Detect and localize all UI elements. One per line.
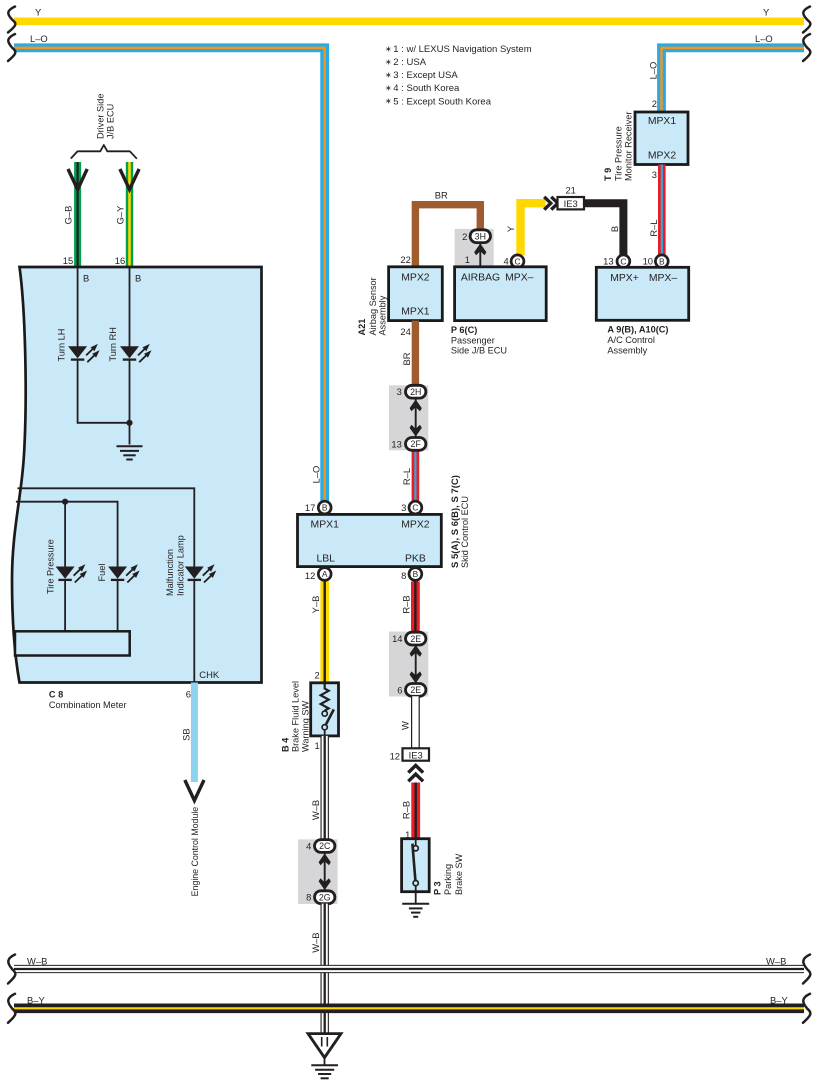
svg-text:24: 24 [400, 326, 410, 337]
svg-text:Y: Y [505, 225, 516, 232]
wire G-Y from Driver Side J/B ECU to meter pin 16 [126, 162, 133, 267]
airbag sensor assembly A21 box [389, 267, 443, 321]
note legend asterisk list [385, 44, 532, 107]
parking brake SW P3 box [402, 839, 430, 892]
LED Fuel [108, 564, 140, 582]
connector 2E-2E junction block [389, 632, 428, 697]
svg-text:B: B [609, 226, 620, 232]
svg-text:12: 12 [305, 570, 315, 581]
ground symbol P3 [402, 904, 429, 917]
svg-text:LBL: LBL [316, 554, 335, 565]
wire MIL LED to CHK pin 6 [193, 581, 195, 683]
ground symbol inside meter [117, 446, 143, 459]
svg-text:A/C Control: A/C Control [607, 335, 655, 345]
svg-text:W–B: W–B [310, 800, 321, 820]
Skid Control ECU box S5 S6 S7 [298, 514, 442, 566]
svg-text:R–L: R–L [401, 468, 412, 485]
ground symbol bottom [311, 1065, 338, 1078]
arrow into wire G-Y [120, 169, 139, 190]
wire meter bus to Malfunction Indicator Lamp [18, 488, 195, 567]
arrow to Engine Control Module [185, 780, 204, 801]
label A21 Airbag Sensor Assembly [357, 277, 387, 335]
LED Turn LH [68, 344, 100, 362]
chevron connector to IE3 [544, 197, 558, 210]
svg-text:∗: ∗ [385, 84, 392, 93]
resistor block inside meter [15, 631, 130, 655]
break symbol top-left L-O [8, 34, 15, 61]
svg-text:Warning SW: Warning SW [300, 700, 310, 752]
svg-text:14: 14 [392, 633, 402, 644]
connector 3H junction block [455, 229, 494, 267]
svg-text:IE3: IE3 [564, 198, 578, 209]
svg-text:MPX+: MPX+ [610, 273, 639, 284]
break symbol top-right Y [803, 7, 810, 33]
wire G-B from Driver Side J/B ECU to meter pin 15 [74, 162, 81, 267]
connector 2C-2G junction block [298, 839, 337, 904]
svg-text:6: 6 [397, 684, 402, 695]
svg-text:3H: 3H [475, 231, 486, 241]
bus B-Y bottom [14, 1003, 804, 1013]
svg-text:BR: BR [435, 189, 448, 200]
svg-text:Airbag Sensor: Airbag Sensor [368, 277, 378, 335]
svg-text:W: W [400, 721, 411, 730]
svg-text:Passenger: Passenger [451, 335, 495, 345]
svg-text:2G: 2G [319, 892, 331, 902]
junction node turn lamps [126, 420, 132, 426]
wire meter bus to Tire Pressure and Fuel LEDs [16, 502, 118, 567]
wire Y from IE3 to P6 pin 4 [521, 203, 546, 255]
svg-text:R–B: R–B [400, 801, 411, 819]
LED Malfunction Indicator Lamp [185, 564, 217, 582]
svg-text:Tire Pressure: Tire Pressure [46, 539, 56, 594]
svg-text:A: A [322, 569, 328, 579]
wire Turn LH LED to junction [78, 360, 130, 423]
svg-text:Assembly: Assembly [607, 345, 647, 355]
switch inside B4 [322, 709, 334, 736]
body ground II triangle [308, 1034, 341, 1058]
wire R-L T9 pin3 to A/C pin 10 [658, 165, 666, 256]
svg-text:Driver Side: Driver Side [95, 94, 105, 139]
svg-text:1 : w/ LEXUS Navigation System: 1 : w/ LEXUS Navigation System [393, 44, 531, 55]
wire junction to Tire Pressure LED [64, 502, 66, 567]
svg-text:Skid Control ECU: Skid Control ECU [460, 496, 470, 568]
connector oval 2F pin 13 [406, 438, 426, 451]
wire meter pin15 to Turn LH LED [77, 267, 79, 347]
label P6 Passenger Side J/B ECU [451, 325, 507, 356]
svg-text:16: 16 [115, 255, 125, 266]
svg-text:Assembly: Assembly [378, 295, 388, 335]
chevron connector from IE3 up [408, 765, 423, 781]
wire SB from CHK to Engine Control Module [191, 683, 198, 783]
svg-text:L–O: L–O [755, 33, 773, 44]
connector oval 2E pin 6 [406, 684, 426, 697]
break symbol top-right L-O [803, 34, 810, 61]
svg-text:Tire Pressure: Tire Pressure [613, 126, 623, 181]
svg-text:5 : Except South Korea: 5 : Except South Korea [393, 96, 491, 107]
pin 3 C skid ECU [409, 501, 422, 514]
svg-text:J/B ECU: J/B ECU [106, 104, 116, 139]
wire BR A21 pin24 to connector 2H [412, 321, 419, 386]
svg-text:SB: SB [181, 728, 192, 741]
svg-text:Brake SW: Brake SW [454, 853, 464, 895]
svg-text:4: 4 [503, 255, 508, 266]
wire Y-B Skid ECU pin12 to B4 pin2 [320, 582, 329, 684]
svg-text:8: 8 [306, 892, 311, 903]
tire pressure monitor receiver T9 box [635, 112, 688, 165]
svg-text:PKB: PKB [405, 554, 426, 565]
svg-text:10: 10 [643, 255, 653, 266]
label Driver Side J/B ECU [95, 94, 115, 139]
wire B IE3 to A/C pin 13 [584, 203, 623, 255]
pin 8 B skid ECU [409, 568, 422, 581]
A/C control assembly box [596, 267, 688, 320]
svg-text:B: B [135, 273, 141, 284]
svg-text:MPX1: MPX1 [311, 519, 340, 530]
svg-text:Fuel: Fuel [97, 564, 107, 582]
connector oval 3H pin 2 [470, 230, 490, 243]
svg-text:R–B: R–B [401, 595, 412, 613]
svg-text:P 3: P 3 [432, 881, 442, 895]
connector oval 2H pin 3 [406, 385, 426, 398]
break symbol bottom-left W-B [8, 955, 15, 984]
break symbol top-left Y [8, 7, 15, 33]
svg-text:2: 2 [314, 670, 319, 681]
svg-text:17: 17 [305, 502, 315, 513]
svg-text:W–B: W–B [27, 955, 47, 966]
svg-text:L–O: L–O [648, 62, 659, 80]
wire Fuel LED to resistor block [117, 581, 119, 632]
svg-text:B: B [322, 503, 328, 513]
svg-text:4 : South Korea: 4 : South Korea [393, 83, 460, 94]
label Malfunction Indicator Lamp [165, 535, 186, 596]
connector 2H-2F junction block [389, 385, 428, 450]
svg-text:12: 12 [390, 751, 400, 762]
svg-text:G–Y: G–Y [115, 205, 126, 225]
svg-text:MPX–: MPX– [505, 273, 534, 284]
svg-text:Turn LH: Turn LH [57, 329, 67, 362]
svg-text:B–Y: B–Y [770, 994, 788, 1005]
svg-text:MPX2: MPX2 [648, 150, 677, 161]
svg-text:15: 15 [63, 255, 73, 266]
wire W-B B4 pin1 to connector 2C [321, 736, 329, 840]
svg-text:∗: ∗ [385, 44, 392, 53]
break symbol bottom-right B-Y [803, 994, 810, 1023]
label A9 A10 A/C Control Assembly [607, 325, 668, 356]
wire Tire Pressure LED to resistor block [64, 581, 66, 632]
svg-text:T 9: T 9 [603, 168, 613, 181]
svg-text:Y: Y [35, 7, 42, 18]
svg-text:G–B: G–B [63, 206, 74, 225]
svg-text:B–Y: B–Y [27, 994, 45, 1005]
pin 4 C P6 [511, 255, 524, 268]
svg-text:MPX2: MPX2 [401, 273, 430, 284]
svg-text:A21: A21 [357, 319, 367, 336]
bus Y top [14, 17, 804, 25]
svg-text:B: B [413, 569, 419, 579]
label C 8 Combination Meter [49, 689, 127, 710]
svg-text:1: 1 [314, 740, 319, 751]
svg-text:MPX2: MPX2 [401, 519, 430, 530]
svg-text:A 9(B), A10(C): A 9(B), A10(C) [607, 325, 668, 335]
svg-text:1: 1 [465, 254, 470, 265]
svg-text:22: 22 [400, 254, 410, 265]
svg-text:R–L: R–L [648, 219, 659, 236]
svg-text:4: 4 [306, 841, 311, 852]
label P3 Parking Brake SW [432, 853, 463, 895]
svg-text:MPX1: MPX1 [401, 307, 430, 318]
svg-text:13: 13 [603, 255, 613, 266]
svg-text:3 : Except USA: 3 : Except USA [393, 70, 458, 81]
svg-text:W–B: W–B [766, 955, 786, 966]
svg-text:B: B [659, 256, 665, 266]
svg-text:2H: 2H [410, 387, 421, 397]
combination meter C8 box [12, 267, 262, 683]
pin 17 B skid ECU [318, 501, 331, 514]
break symbol bottom-left B-Y [8, 994, 15, 1023]
connector oval 2E pin 14 [406, 632, 426, 645]
svg-text:2E: 2E [410, 685, 421, 695]
svg-text:IE3: IE3 [409, 749, 423, 760]
wire L-O left bus to Skid Control ECU pin 17 [14, 48, 325, 502]
brace Driver Side J/B ECU [71, 145, 136, 158]
wire R-B chevron to P3 pin 1 [411, 783, 420, 840]
arrow into wire G-B [68, 169, 87, 190]
svg-text:3: 3 [652, 169, 657, 180]
connector IE3 bottom pin 12 [403, 748, 430, 760]
wire Turn RH LED to junction [129, 360, 131, 423]
svg-text:S 5(A), S 6(B), S 7(C): S 5(A), S 6(B), S 7(C) [450, 475, 461, 568]
resistor inside B4 [321, 684, 329, 711]
svg-text:BR: BR [401, 352, 412, 365]
svg-text:C 8: C 8 [49, 689, 63, 699]
svg-text:CHK: CHK [199, 669, 220, 680]
brake fluid level warning switch B4 box [311, 683, 339, 736]
LED Tire Pressure [56, 564, 88, 582]
svg-text:MPX–: MPX– [649, 273, 678, 284]
svg-text:21: 21 [565, 185, 575, 196]
svg-text:Y: Y [763, 7, 770, 18]
wire junction to meter internal ground [129, 423, 131, 445]
svg-text:3: 3 [397, 386, 402, 397]
label B4 Brake Fluid Level Warning SW [281, 681, 311, 752]
LED Turn RH [120, 344, 152, 362]
svg-text:2 : USA: 2 : USA [393, 57, 426, 68]
wire meter pin16 to Turn RH LED [129, 267, 131, 347]
svg-text:6: 6 [186, 688, 191, 699]
svg-text:MPX1: MPX1 [648, 116, 677, 127]
svg-text:2F: 2F [411, 439, 422, 449]
bus W-B bottom [14, 965, 804, 973]
connector oval 2G pin 8 [315, 891, 335, 904]
wire W connector 2E to IE3 [411, 696, 420, 748]
svg-text:13: 13 [391, 438, 401, 449]
svg-text:Indicator Lamp: Indicator Lamp [175, 535, 185, 596]
wire triangle to earth [324, 1058, 326, 1066]
svg-text:Brake Fluid Level: Brake Fluid Level [291, 681, 301, 752]
wire P3 to ground [415, 892, 417, 904]
wire R-L connector 2F to Skid ECU pin3 [412, 450, 420, 502]
wire BR A21 pin22 to connector 3H [415, 205, 480, 267]
svg-text:L–O: L–O [30, 33, 48, 44]
svg-text:C: C [620, 256, 626, 266]
svg-text:2E: 2E [410, 634, 421, 644]
svg-text:W–B: W–B [310, 932, 321, 952]
connector oval 2C pin 4 [315, 840, 335, 853]
svg-text:P 6(C): P 6(C) [451, 325, 477, 335]
svg-text:Y–B: Y–B [310, 596, 321, 614]
junction node tire pressure [62, 499, 68, 505]
wire L-O right bus to T9 pin 2 [662, 48, 805, 113]
svg-text:Monitor Receiver: Monitor Receiver [624, 112, 634, 181]
wire W-B connector 2G to body ground [321, 904, 329, 1034]
pin 10 B A/C control [655, 255, 668, 268]
svg-text:∗: ∗ [385, 57, 392, 66]
svg-text:∗: ∗ [385, 71, 392, 80]
pin 13 C A/C control [617, 255, 630, 268]
svg-text:2C: 2C [319, 841, 331, 851]
svg-text:Parking: Parking [443, 864, 453, 895]
svg-text:8: 8 [401, 570, 406, 581]
svg-text:Turn RH: Turn RH [108, 327, 118, 361]
svg-text:Engine Control Module: Engine Control Module [190, 807, 200, 897]
svg-text:Side J/B ECU: Side J/B ECU [451, 346, 507, 356]
svg-text:C: C [412, 503, 418, 513]
break symbol bottom-right W-B [803, 955, 810, 984]
label T9 Tire Pressure Monitor Receiver [603, 112, 633, 181]
svg-text:∗: ∗ [385, 97, 392, 106]
svg-text:2: 2 [462, 231, 467, 242]
passenger side J/B ECU P6 box [455, 267, 547, 321]
svg-text:AIRBAG: AIRBAG [461, 273, 500, 284]
svg-text:B 4: B 4 [281, 737, 291, 752]
connector IE3 top pin 21 [558, 197, 585, 209]
svg-text:B: B [83, 273, 89, 284]
switch inside P3 [412, 840, 418, 892]
svg-text:Malfunction: Malfunction [165, 549, 175, 596]
label S5 S6 S7 Skid Control ECU [450, 475, 470, 568]
pin 12 A skid ECU [318, 568, 331, 581]
svg-text:L–O: L–O [311, 466, 322, 484]
wire R-B Skid ECU pin8 to connector 2E [411, 582, 420, 633]
svg-text:Combination Meter: Combination Meter [49, 700, 127, 710]
svg-text:2: 2 [652, 98, 657, 109]
svg-text:C: C [514, 256, 520, 266]
svg-text:3: 3 [401, 502, 406, 513]
